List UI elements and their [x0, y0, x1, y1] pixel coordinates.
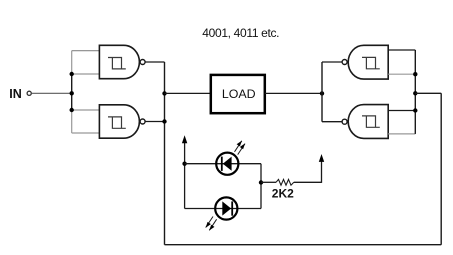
svg-text:LOAD: LOAD	[222, 87, 256, 101]
wire U1A output	[145, 61, 164, 63]
wire: resistor lead right	[294, 181, 322, 183]
NAND gate U1A body	[99, 45, 145, 78]
wire: bottom LED branch	[185, 208, 261, 210]
wire: feedback tap to outer rail	[415, 92, 441, 94]
hysteresis symbol U1A	[108, 58, 126, 69]
LED D2 (points right)	[206, 197, 238, 230]
wire IN to node A	[32, 92, 72, 94]
LOAD box	[211, 75, 265, 113]
wire: tie U1A top input	[72, 50, 100, 52]
junction: bus / U1B upper input	[70, 108, 74, 112]
junction: node B	[320, 91, 324, 95]
NAND gate U1B body	[99, 105, 145, 138]
inverting bubble U1B	[140, 119, 145, 124]
junction: right bus / U1C lower input	[413, 72, 417, 76]
wire: tie U1B bottom input	[72, 132, 100, 134]
wire: tie U1B top input	[72, 109, 100, 111]
junction: LED top branch	[182, 162, 186, 166]
label 2K2	[272, 187, 294, 201]
wire: tie U1C bottom input (grey)	[388, 73, 415, 75]
junction: right bus / U1D upper input	[413, 108, 417, 112]
resistor R1 2K2	[276, 179, 294, 185]
D1 light arrows	[235, 141, 242, 152]
arrow: LED branch upper-left connection	[182, 135, 187, 208]
wire: node B vertical to right gate outputs	[321, 62, 323, 122]
LED D1 (points left)	[216, 141, 245, 175]
wire: left input bus lower (grey)	[71, 110, 73, 133]
wire: LED right connector	[260, 164, 262, 209]
wire: right input bus	[414, 50, 416, 134]
NAND gate U1C (mirrored)	[342, 45, 388, 79]
wire: resistor lead left	[261, 181, 276, 183]
wire: tie U1C top input	[388, 49, 415, 51]
wire LOAD right to node B	[265, 92, 322, 94]
hysteresis symbol U1B	[108, 117, 126, 128]
inverting bubble U1C	[342, 60, 347, 65]
input terminal	[27, 91, 31, 95]
wire: left output vertical rail	[164, 62, 166, 245]
wire U1B output	[145, 121, 164, 123]
junction: outputs to load	[162, 91, 166, 95]
label: chip type note	[202, 26, 279, 40]
hysteresis symbol U1D	[362, 116, 380, 127]
svg-text:4001, 4011 etc.: 4001, 4011 etc.	[202, 26, 279, 40]
junction: resistor tap	[259, 180, 263, 184]
wire: tie U1D bottom input (grey)	[388, 133, 415, 135]
wire: left input bus middle	[71, 73, 73, 110]
wire: outer right vertical rail	[440, 93, 442, 244]
inverting bubble U1A	[140, 60, 145, 65]
junction: node A (IN)	[70, 91, 74, 95]
label IN	[9, 87, 21, 101]
junction: U1B output joins rail	[162, 119, 166, 123]
junction: right bus feedback tap	[413, 91, 417, 95]
wire: top LED branch	[185, 163, 261, 165]
wire to U1C output bubble	[322, 61, 342, 63]
wire: bottom feedback rail	[165, 244, 442, 246]
D2 light arrows	[206, 217, 213, 228]
wire: tie U1D top input	[388, 110, 415, 112]
inverting bubble U1D	[342, 119, 347, 124]
junction: bus / U1A lower input	[70, 72, 74, 76]
wire: tie U1A bottom input	[72, 73, 100, 75]
arrow: resistor to drive point	[319, 154, 324, 183]
wire to LOAD left	[165, 92, 211, 94]
svg-text:2K2: 2K2	[272, 187, 294, 201]
wire: left input bus upper (grey)	[71, 51, 73, 74]
wire to U1D output bubble	[322, 121, 342, 123]
hysteresis symbol U1C	[362, 57, 380, 68]
svg-text:IN: IN	[9, 87, 21, 101]
NAND gate U1D (mirrored)	[342, 105, 388, 139]
